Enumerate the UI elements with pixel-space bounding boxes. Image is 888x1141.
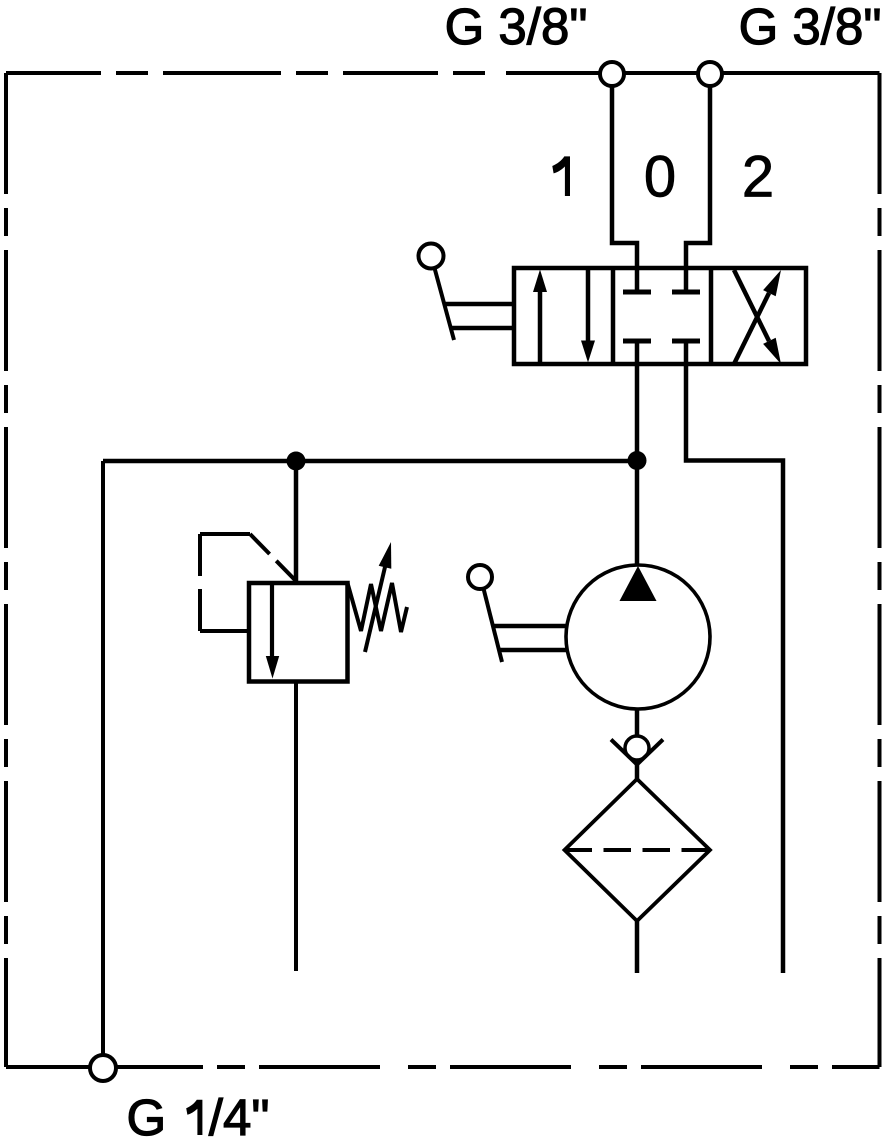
relief valve RV1 flow arrow [266, 583, 279, 679]
position label 1 [552, 156, 570, 196]
svg-text:G 3/8": G 3/8" [739, 0, 882, 55]
junction node at relief branch [287, 452, 306, 471]
svg-text:/4": /4" [209, 1089, 270, 1141]
relief valve RV1 body [249, 583, 348, 682]
wire relief valve drain [294, 681, 298, 971]
hand pump HP1 lever [468, 565, 567, 662]
valve V1 position-1 up arrow [533, 270, 547, 363]
port P2 G3/8 circle [698, 62, 722, 86]
valve V1 position-2 crossed arrow up [734, 270, 781, 364]
wire valve port T down right to tank area [686, 341, 783, 973]
svg-text:0: 0 [644, 145, 676, 210]
wire filter suction tail [635, 921, 640, 973]
wire from port P1 to valve port A [612, 86, 637, 292]
hand pump HP1 flow triangle [620, 566, 657, 601]
main horizontal wire [103, 459, 637, 464]
label G 1/4" [127, 1089, 270, 1141]
filter F1 element (dashed) [565, 848, 711, 852]
valve V1 hand lever [419, 244, 515, 341]
wire valve port P down to junction and pump [635, 341, 640, 564]
relief valve RV1 pilot line (dashed) [200, 534, 297, 631]
svg-text:G: G [127, 1089, 167, 1141]
enclosure boundary left dashed segment [4, 73, 8, 1067]
enclosure boundary top solid segment (between ports and right corner) [506, 71, 880, 75]
port P1 G3/8 circle [600, 62, 624, 86]
wire pump suction to check valve [635, 709, 640, 737]
port P3 G1/4 circle [90, 1055, 116, 1081]
filter F1 diamond [565, 779, 711, 921]
svg-text:G 3/8": G 3/8" [445, 0, 588, 55]
check valve CV1 ball [625, 736, 649, 760]
hand pump HP1 circle [566, 565, 710, 709]
enclosure boundary top dashed segment [6, 71, 487, 75]
wire relief valve inlet [294, 461, 299, 583]
valve V1 position-2 crossed arrow down [734, 270, 781, 364]
enclosure boundary right dashed segment [878, 73, 882, 1067]
valve V1 position-1 down arrow [581, 270, 595, 363]
wire left branch down to G 1/4 port [101, 461, 105, 1055]
svg-text:2: 2 [742, 145, 774, 210]
enclosure boundary bottom solid segment (left corner to port) [6, 1065, 203, 1069]
wire from port P2 to valve port B [686, 86, 710, 292]
valve V1 center position blocked port bars [623, 292, 700, 341]
check valve CV1 seat [611, 740, 663, 765]
junction node at pump line [628, 451, 647, 470]
wire check valve to filter [635, 763, 640, 779]
directional valve V1 body (3-position) [514, 268, 806, 364]
relief valve RV1 spring [348, 583, 408, 632]
enclosure boundary bottom dashed segment [203, 1065, 880, 1069]
relief valve RV1 adjustment arrow [365, 542, 391, 652]
